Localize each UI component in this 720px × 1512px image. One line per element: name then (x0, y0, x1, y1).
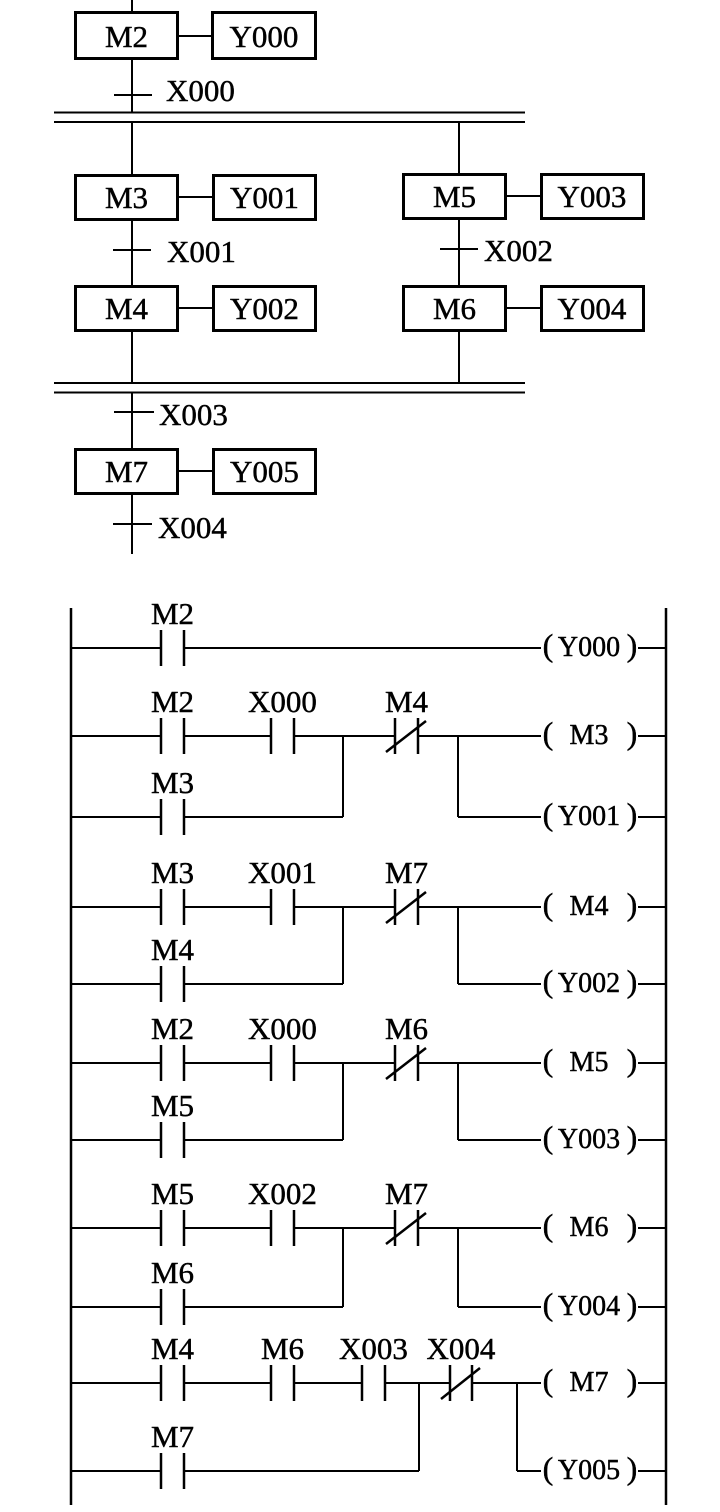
wire (71, 735, 161, 737)
wire (184, 735, 271, 737)
svg-text:Y000: Y000 (558, 632, 620, 663)
contact M4 (151, 932, 195, 1002)
svg-text:(: ( (543, 1450, 554, 1486)
svg-text:M3: M3 (105, 180, 148, 215)
wire (294, 735, 395, 737)
svg-text:X004: X004 (427, 1331, 496, 1366)
contact M5 (151, 1088, 194, 1158)
wire (638, 1470, 666, 1472)
svg-text:): ) (627, 1042, 638, 1078)
wire (71, 1227, 161, 1229)
svg-text:Y001: Y001 (230, 180, 299, 215)
svg-text:Y004: Y004 (558, 291, 627, 326)
svg-text:M3: M3 (151, 855, 194, 890)
wire (638, 735, 666, 737)
svg-text:): ) (627, 1207, 638, 1243)
wire (131, 219, 133, 287)
svg-text:M4: M4 (151, 932, 195, 967)
junction wire (457, 736, 459, 817)
svg-text:Y005: Y005 (558, 1455, 620, 1486)
junction wire (342, 907, 344, 984)
wire (638, 1382, 666, 1384)
svg-text:M4: M4 (570, 891, 609, 922)
svg-text:(: ( (543, 1286, 554, 1322)
step box M7 (76, 450, 178, 494)
parallel branch start double line (54, 113, 525, 123)
wire (71, 1062, 161, 1064)
wire (638, 1139, 666, 1141)
coil Y001 (543, 796, 638, 832)
wire (385, 1382, 450, 1384)
svg-text:): ) (627, 1286, 638, 1322)
wire (638, 1062, 666, 1064)
wire (294, 1062, 395, 1064)
wire (71, 816, 161, 818)
svg-text:X002: X002 (248, 1176, 317, 1211)
svg-text:): ) (627, 886, 638, 922)
svg-text:(: ( (543, 715, 554, 751)
wire (638, 1306, 666, 1308)
transition X001 (113, 234, 236, 269)
coil Y005 (543, 1450, 638, 1486)
wire (184, 647, 541, 649)
svg-text:): ) (627, 796, 638, 832)
wire (458, 122, 460, 175)
svg-text:): ) (627, 963, 638, 999)
svg-text:): ) (627, 1450, 638, 1486)
action box Y000 (213, 13, 316, 59)
wire (71, 906, 161, 908)
NC contact M7 (385, 1176, 428, 1246)
wire (294, 906, 395, 908)
coil Y000 (543, 627, 638, 663)
svg-text:Y004: Y004 (558, 1291, 620, 1322)
svg-text:M6: M6 (570, 1212, 609, 1243)
NC contact M4 (385, 684, 429, 754)
wire (418, 906, 541, 908)
svg-text:Y003: Y003 (558, 179, 627, 214)
coil M3 (543, 715, 638, 751)
wire (638, 906, 666, 908)
svg-text:M7: M7 (570, 1367, 609, 1398)
wire (472, 1382, 541, 1384)
coil M7 (543, 1362, 638, 1398)
wire (458, 218, 460, 287)
svg-text:X002: X002 (484, 233, 553, 268)
wire (458, 983, 541, 985)
wire (71, 1306, 161, 1308)
wire (507, 307, 541, 309)
svg-text:M2: M2 (105, 19, 148, 54)
coil M5 (543, 1042, 638, 1078)
action box Y004 (542, 287, 644, 331)
coil M6 (543, 1207, 638, 1243)
step box M4 (76, 287, 178, 331)
svg-text:M3: M3 (570, 720, 609, 751)
svg-text:(: ( (543, 796, 554, 832)
wire (179, 470, 213, 472)
contact M7 (151, 1419, 194, 1489)
wire (71, 1470, 161, 1472)
action box Y002 (214, 287, 316, 331)
wire (294, 1227, 395, 1229)
wire (294, 1382, 362, 1384)
wire (458, 330, 460, 383)
junction wire (342, 1228, 344, 1307)
wire (638, 983, 666, 985)
wire (458, 1306, 541, 1308)
parallel branch end double line (54, 383, 525, 393)
svg-text:M2: M2 (151, 684, 194, 719)
contact M4 (151, 1331, 195, 1401)
junction wire (457, 907, 459, 984)
wire (638, 816, 666, 818)
svg-text:(: ( (543, 963, 554, 999)
svg-text:M5: M5 (151, 1176, 194, 1211)
svg-text:Y003: Y003 (558, 1124, 620, 1155)
wire (418, 1227, 541, 1229)
contact X000 (248, 684, 317, 754)
wire (179, 307, 213, 309)
action box Y005 (214, 450, 316, 494)
junction wire (342, 736, 344, 817)
wire (184, 816, 343, 818)
wire (131, 330, 133, 383)
NC contact M6 (385, 1011, 428, 1081)
wire (638, 647, 666, 649)
wire (131, 122, 133, 175)
svg-text:(: ( (543, 1362, 554, 1398)
contact M2 (151, 684, 194, 754)
svg-text:M7: M7 (385, 855, 428, 890)
svg-text:): ) (627, 715, 638, 751)
contact X000 (248, 1011, 317, 1081)
svg-text:(: ( (543, 886, 554, 922)
wire (184, 1062, 271, 1064)
action box Y001 (214, 176, 316, 220)
wire (184, 1227, 271, 1229)
wire (179, 196, 213, 198)
step box M6 (404, 287, 506, 331)
wire (458, 1139, 541, 1141)
wire (507, 195, 541, 197)
svg-text:Y001: Y001 (558, 801, 620, 832)
coil Y002 (543, 963, 638, 999)
svg-text:Y005: Y005 (230, 454, 299, 489)
wire (184, 1382, 271, 1384)
coil M4 (543, 886, 638, 922)
svg-text:M6: M6 (433, 291, 476, 326)
svg-text:): ) (627, 1119, 638, 1155)
wire (184, 983, 343, 985)
svg-text:M6: M6 (151, 1255, 194, 1290)
contact M2 (151, 596, 194, 666)
svg-text:X000: X000 (248, 1011, 317, 1046)
svg-text:X004: X004 (158, 510, 227, 545)
svg-text:Y002: Y002 (558, 968, 620, 999)
action box Y003 (542, 175, 644, 219)
svg-text:M7: M7 (385, 1176, 428, 1211)
svg-text:M2: M2 (151, 596, 194, 631)
wire (184, 1139, 343, 1141)
transition X000 (114, 73, 235, 108)
transition X003 (114, 397, 228, 432)
wire (71, 1382, 161, 1384)
wire (418, 1062, 541, 1064)
svg-text:Y000: Y000 (230, 19, 299, 54)
contact M3 (151, 765, 194, 835)
contact M5 (151, 1176, 194, 1246)
svg-text:M7: M7 (151, 1419, 194, 1454)
NC contact X004 (427, 1331, 496, 1401)
junction wire (457, 1228, 459, 1307)
svg-text:M5: M5 (433, 179, 476, 214)
wire (418, 735, 541, 737)
svg-text:M4: M4 (105, 291, 149, 326)
wire (184, 1470, 419, 1472)
transition X002 (440, 233, 553, 268)
junction wire (418, 1383, 420, 1471)
svg-text:(: ( (543, 627, 554, 663)
junction wire (457, 1063, 459, 1140)
svg-text:X000: X000 (166, 73, 235, 108)
svg-text:M5: M5 (151, 1088, 194, 1123)
step box M2 (76, 13, 178, 59)
wire (131, 392, 133, 450)
contact M3 (151, 855, 194, 925)
svg-text:M4: M4 (151, 1331, 195, 1366)
svg-text:X003: X003 (159, 397, 228, 432)
svg-text:X001: X001 (248, 855, 317, 890)
wire (458, 816, 541, 818)
wire (71, 1139, 161, 1141)
svg-text:): ) (627, 1362, 638, 1398)
svg-text:M4: M4 (385, 684, 429, 719)
contact M6 (151, 1255, 194, 1325)
NC contact M7 (385, 855, 428, 925)
svg-text:M3: M3 (151, 765, 194, 800)
svg-text:M5: M5 (570, 1047, 609, 1078)
wire (131, 493, 133, 554)
contact X002 (248, 1176, 317, 1246)
svg-text:(: ( (543, 1119, 554, 1155)
contact X001 (248, 855, 317, 925)
wire (71, 647, 161, 649)
svg-text:X003: X003 (339, 1331, 408, 1366)
junction wire (516, 1383, 518, 1471)
step box M5 (404, 175, 506, 219)
svg-text:M6: M6 (261, 1331, 304, 1366)
svg-text:Y002: Y002 (230, 291, 299, 326)
wire (638, 1227, 666, 1229)
wire (517, 1470, 541, 1472)
contact X003 (339, 1331, 408, 1401)
wire (184, 906, 271, 908)
wire (131, 58, 133, 112)
svg-text:M6: M6 (385, 1011, 428, 1046)
wire (71, 983, 161, 985)
coil Y003 (543, 1119, 638, 1155)
svg-text:): ) (627, 627, 638, 663)
wire (179, 35, 211, 37)
svg-text:X000: X000 (248, 684, 317, 719)
svg-text:M2: M2 (151, 1011, 194, 1046)
svg-text:M7: M7 (105, 454, 148, 489)
contact M6 (261, 1331, 304, 1401)
coil Y004 (543, 1286, 638, 1322)
right power rail (665, 608, 668, 1505)
svg-text:(: ( (543, 1207, 554, 1243)
transition X004 (113, 510, 227, 545)
wire (184, 1306, 343, 1308)
contact M2 (151, 1011, 194, 1081)
svg-text:(: ( (543, 1042, 554, 1078)
wire (131, 0, 133, 14)
step box M3 (76, 176, 178, 220)
junction wire (342, 1063, 344, 1140)
svg-text:X001: X001 (167, 234, 236, 269)
left power rail (70, 608, 73, 1505)
